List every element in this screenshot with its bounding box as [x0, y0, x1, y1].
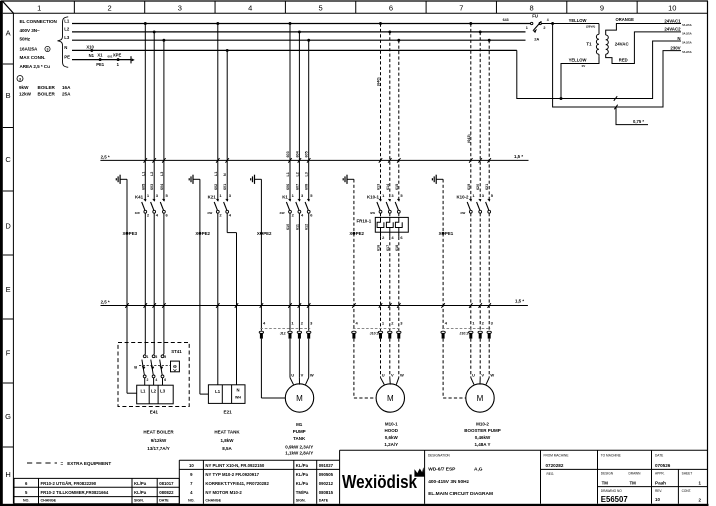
svg-text:4: 4 — [155, 378, 157, 382]
svg-text:W: W — [400, 373, 404, 378]
svg-text:WD-6/7 ESP: WD-6/7 ESP — [428, 467, 456, 473]
svg-text:10: 10 — [655, 497, 660, 502]
svg-text:PE2: PE2 — [356, 231, 365, 236]
svg-text:0,9kW 2,3A/Y: 0,9kW 2,3A/Y — [285, 444, 313, 449]
svg-text:E41: E41 — [150, 409, 159, 414]
svg-text:2A: 2A — [534, 36, 539, 41]
svg-text:5: 5 — [164, 355, 166, 359]
svg-text:X1: X1 — [97, 53, 103, 58]
svg-text:2: 2 — [147, 378, 149, 382]
svg-text:6: 6 — [389, 3, 393, 12]
svg-text:Θ: Θ — [173, 364, 177, 369]
svg-text:KL/Pa: KL/Pa — [134, 490, 147, 495]
svg-text:2,5 *: 2,5 * — [101, 155, 110, 160]
svg-text:PE1: PE1 — [445, 231, 454, 236]
svg-text:TO MACHINE: TO MACHINE — [601, 454, 621, 458]
svg-text:K1: K1 — [282, 195, 288, 200]
svg-text:(28VA): (28VA) — [586, 24, 595, 28]
svg-text:3: 3 — [155, 355, 157, 359]
svg-text:EXTRA EQUIPMENT: EXTRA EQUIPMENT — [67, 461, 111, 466]
svg-text:(640): (640) — [377, 77, 381, 86]
svg-text:N: N — [64, 45, 67, 50]
svg-text:L2: L2 — [150, 172, 154, 176]
svg-text:DRAWN: DRAWN — [629, 472, 642, 476]
svg-text:610: 610 — [286, 224, 290, 230]
svg-text:FR10-1: FR10-1 — [357, 219, 372, 224]
svg-text:607: 607 — [295, 184, 299, 190]
svg-text:CONT.: CONT. — [682, 489, 692, 493]
svg-text:070526: 070526 — [655, 463, 671, 468]
svg-text:J10:1: J10:1 — [370, 331, 379, 335]
svg-text:X: X — [122, 231, 125, 236]
svg-text:EL.MAIN CIRCUIT DIAGRAM: EL.MAIN CIRCUIT DIAGRAM — [428, 491, 493, 497]
svg-text:Paah: Paah — [655, 480, 666, 485]
svg-text:L2: L2 — [295, 172, 299, 176]
svg-text:SHEET: SHEET — [682, 472, 693, 476]
svg-text:X: X — [349, 231, 352, 236]
svg-text:FROM MACHINE: FROM MACHINE — [544, 454, 569, 458]
svg-text:2: 2 — [543, 26, 545, 30]
svg-text:DATE: DATE — [655, 454, 663, 458]
svg-text:400V 3N~: 400V 3N~ — [20, 28, 41, 33]
svg-text:Wexiödisk: Wexiödisk — [342, 472, 418, 492]
svg-text:0,6kW: 0,6kW — [385, 435, 399, 440]
svg-text:613: 613 — [377, 184, 381, 190]
svg-text:1,5 *: 1,5 * — [515, 299, 524, 304]
svg-text:DESIGN: DESIGN — [601, 472, 614, 476]
svg-text:081017: 081017 — [159, 481, 174, 486]
svg-text:400-415V 3N 50Hz: 400-415V 3N 50Hz — [428, 479, 469, 485]
svg-text:V: V — [481, 373, 484, 378]
svg-text:612: 612 — [305, 224, 309, 230]
svg-text:C: C — [5, 155, 11, 164]
svg-text:12kW: 12kW — [19, 92, 32, 97]
svg-text:WH: WH — [235, 396, 241, 400]
svg-text:KL/Pa: KL/Pa — [296, 481, 309, 486]
svg-text:W: W — [310, 373, 314, 378]
svg-text:PE: PE — [64, 54, 70, 59]
svg-text:1,5 *: 1,5 * — [514, 154, 523, 159]
svg-text:K41: K41 — [135, 195, 144, 200]
svg-text:0,75 *: 0,75 * — [633, 119, 644, 124]
svg-text:16A: 16A — [62, 85, 71, 90]
svg-text:AREA 2,5 * Cu: AREA 2,5 * Cu — [20, 64, 51, 69]
svg-text:KL/Pa: KL/Pa — [296, 463, 309, 468]
svg-text:1: 1 — [147, 355, 149, 359]
svg-text:230V: 230V — [670, 45, 680, 50]
svg-text:FR10-2 TILLKOMMER,FR0821664: FR10-2 TILLKOMMER,FR0821664 — [41, 490, 109, 495]
svg-text:L1: L1 — [214, 172, 218, 176]
svg-text:NY TYP M10-2 FR.0920917: NY TYP M10-2 FR.0920917 — [205, 472, 259, 477]
svg-text:APPR.: APPR. — [655, 472, 665, 476]
svg-text:614: 614 — [386, 183, 390, 190]
svg-text:ST41: ST41 — [171, 349, 182, 354]
svg-text:3/W: 3/W — [135, 211, 140, 215]
svg-text:X: X — [439, 231, 442, 236]
svg-text:0720282: 0720282 — [546, 463, 564, 468]
svg-text:3/W: 3/W — [207, 211, 212, 215]
svg-text:KL/Pa: KL/Pa — [296, 472, 309, 477]
svg-text:DATE: DATE — [159, 499, 169, 503]
svg-text:1: 1 — [526, 26, 528, 30]
svg-text:611: 611 — [295, 224, 299, 230]
svg-text:PUMP: PUMP — [293, 429, 306, 434]
svg-text:M: M — [296, 394, 303, 403]
svg-text:BOOSTER PUMP: BOOSTER PUMP — [464, 428, 501, 433]
svg-text:TANK: TANK — [293, 436, 306, 441]
svg-text:603: 603 — [286, 151, 290, 157]
svg-text:DRAWING NO: DRAWING NO — [601, 489, 622, 493]
svg-text:N: N — [677, 36, 680, 41]
svg-text:090505: 090505 — [319, 472, 334, 477]
svg-text:PE1: PE1 — [96, 62, 105, 67]
svg-text:24VAC1: 24VAC1 — [664, 18, 681, 23]
svg-text:3/W: 3/W — [460, 211, 465, 215]
svg-text:HOOD: HOOD — [385, 428, 399, 433]
svg-text:1,2A/Y: 1,2A/Y — [384, 442, 398, 447]
svg-text:CHANGE: CHANGE — [41, 499, 57, 503]
svg-text:602: 602 — [214, 184, 218, 190]
svg-text:L3: L3 — [160, 389, 166, 394]
svg-text:K10-2: K10-2 — [457, 195, 470, 200]
svg-text:YELLOW: YELLOW — [569, 58, 587, 63]
svg-text:G: G — [5, 412, 11, 421]
svg-text:K21: K21 — [208, 195, 217, 200]
svg-text:MAX CONN.: MAX CONN. — [20, 55, 46, 60]
svg-text:1,48A Y: 1,48A Y — [474, 442, 490, 447]
svg-text:E56507: E56507 — [601, 495, 628, 504]
svg-text:4: 4 — [248, 3, 252, 12]
svg-text:1,8kW: 1,8kW — [220, 438, 234, 443]
svg-text:D: D — [5, 222, 11, 231]
svg-text:091027: 091027 — [319, 463, 334, 468]
svg-text:16A/25A: 16A/25A — [20, 47, 39, 52]
svg-text:DATE: DATE — [319, 499, 329, 503]
svg-text:X10: X10 — [86, 44, 94, 49]
svg-text:3/W: 3/W — [280, 211, 285, 215]
svg-text:M: M — [477, 394, 484, 403]
svg-text:X: X — [195, 231, 198, 236]
svg-text:50Hz: 50Hz — [20, 37, 31, 42]
svg-text:621: 621 — [485, 184, 489, 190]
svg-text:3/W: 3/W — [370, 211, 375, 215]
svg-text:606: 606 — [286, 184, 290, 190]
svg-text:10: 10 — [668, 3, 676, 12]
svg-text:24VAC: 24VAC — [615, 42, 630, 47]
svg-text:615: 615 — [395, 184, 399, 190]
svg-text:F: F — [6, 349, 11, 358]
svg-text:5A 2/1A: 5A 2/1A — [682, 23, 692, 27]
svg-text:PE2: PE2 — [263, 231, 272, 236]
svg-text:A: A — [6, 29, 11, 38]
svg-text:L2: L2 — [151, 389, 157, 394]
svg-text:601: 601 — [223, 184, 227, 190]
svg-text:E21: E21 — [224, 409, 233, 414]
svg-text:X: X — [257, 231, 260, 236]
svg-text:643: 643 — [503, 18, 509, 22]
svg-text:TM/Pa: TM/Pa — [296, 490, 309, 495]
svg-text:K10-1: K10-1 — [367, 195, 380, 200]
svg-text:608: 608 — [305, 184, 309, 190]
svg-text:3: 3 — [47, 48, 49, 52]
svg-text:NO.: NO. — [23, 499, 29, 503]
svg-text:620: 620 — [476, 184, 480, 190]
svg-text:T1: T1 — [586, 42, 592, 47]
svg-text:J10:2: J10:2 — [459, 331, 468, 335]
svg-text:BOILER: BOILER — [38, 92, 56, 97]
svg-text:604: 604 — [160, 183, 164, 190]
svg-text:9kW: 9kW — [19, 85, 29, 90]
svg-text:J12: J12 — [280, 331, 286, 335]
svg-text:N: N — [223, 173, 227, 176]
svg-text:L3: L3 — [64, 35, 70, 40]
svg-text:0,46kW: 0,46kW — [475, 435, 491, 440]
svg-text:FU: FU — [532, 14, 538, 19]
svg-text:604: 604 — [295, 150, 299, 157]
svg-text:DESIGNATION: DESIGNATION — [428, 454, 450, 458]
svg-text:EL CONNECTION: EL CONNECTION — [20, 19, 58, 24]
svg-text:N: N — [236, 388, 239, 393]
svg-text:080822: 080822 — [159, 490, 174, 495]
svg-text:E: E — [6, 285, 11, 294]
svg-text:TM: TM — [602, 480, 609, 485]
svg-text:L3: L3 — [160, 172, 164, 176]
svg-text:0V: 0V — [582, 64, 586, 68]
svg-text:L1: L1 — [141, 172, 145, 176]
svg-text:619: 619 — [467, 184, 471, 190]
svg-text:4: 4 — [547, 18, 549, 22]
svg-text:M10-2: M10-2 — [476, 421, 489, 426]
svg-text:(643): (643) — [467, 134, 471, 143]
svg-text:8,5A: 8,5A — [222, 446, 232, 451]
svg-text:XPE: XPE — [113, 53, 122, 58]
svg-text:H: H — [5, 470, 10, 479]
svg-text:KL/Pa: KL/Pa — [134, 481, 147, 486]
svg-text:U: U — [472, 373, 475, 378]
svg-text:V: V — [301, 373, 304, 378]
svg-text:13/17,7A/Y: 13/17,7A/Y — [147, 446, 170, 451]
svg-text:5A 2/1A: 5A 2/1A — [682, 32, 692, 36]
svg-text:N1: N1 — [89, 53, 95, 58]
svg-text:NO.: NO. — [188, 499, 194, 503]
svg-text:617: 617 — [386, 245, 390, 251]
svg-text:M: M — [387, 394, 394, 403]
svg-text:605: 605 — [141, 184, 145, 190]
svg-text:1,1kW 2,8A/Y: 1,1kW 2,8A/Y — [285, 451, 313, 456]
svg-text:9: 9 — [600, 3, 604, 12]
svg-text:5A 2/1A: 5A 2/1A — [682, 50, 692, 54]
svg-text:M10-1: M10-1 — [385, 421, 398, 426]
svg-text:REG.: REG. — [547, 472, 555, 476]
svg-text:7: 7 — [459, 3, 463, 12]
svg-text:080815: 080815 — [319, 490, 334, 495]
svg-text:NY PLINT X10-N, FR.0922150: NY PLINT X10-N, FR.0922150 — [205, 463, 265, 468]
svg-text:5: 5 — [318, 3, 322, 12]
svg-text:U: U — [382, 373, 385, 378]
svg-text:YELLOW: YELLOW — [569, 18, 587, 23]
svg-text:2,5 *: 2,5 * — [101, 300, 110, 305]
svg-text:B: B — [6, 91, 11, 100]
svg-text:616: 616 — [377, 245, 381, 251]
svg-text:603: 603 — [150, 184, 154, 190]
svg-text:L1: L1 — [286, 172, 290, 176]
svg-text:6: 6 — [164, 378, 166, 382]
svg-text:10: 10 — [189, 463, 194, 468]
svg-text:REV.: REV. — [655, 489, 662, 493]
svg-text:L1: L1 — [215, 389, 221, 394]
svg-text:L3: L3 — [305, 172, 309, 176]
svg-text:1: 1 — [37, 3, 41, 12]
svg-text:HEAT BOILER: HEAT BOILER — [143, 430, 174, 435]
svg-text:CHANGE: CHANGE — [205, 499, 221, 503]
svg-text:U: U — [291, 373, 294, 378]
svg-text:V: V — [391, 373, 394, 378]
svg-text:8: 8 — [530, 3, 534, 12]
svg-text:TM: TM — [630, 480, 637, 485]
svg-text:A,G: A,G — [474, 467, 483, 473]
svg-text:090212: 090212 — [319, 481, 334, 486]
svg-text:5A 2/1A: 5A 2/1A — [682, 41, 692, 45]
svg-text:605: 605 — [305, 151, 309, 157]
svg-text:SIGN.: SIGN. — [134, 499, 144, 503]
svg-text:M1: M1 — [296, 422, 303, 427]
svg-text:3: 3 — [178, 3, 182, 12]
svg-text:SIGN.: SIGN. — [296, 499, 306, 503]
svg-text:HEAT TANK: HEAT TANK — [214, 430, 240, 435]
svg-text:W: W — [490, 373, 494, 378]
svg-text:ORANGE: ORANGE — [616, 17, 635, 22]
svg-text:KORREKT.TYP.E41, FR0720282: KORREKT.TYP.E41, FR0720282 — [205, 481, 269, 486]
svg-text:L1: L1 — [140, 389, 146, 394]
svg-text:25A: 25A — [62, 92, 71, 97]
svg-text:PE2: PE2 — [202, 231, 211, 236]
svg-text:FR10-2 UTGÅR, FR0822290: FR10-2 UTGÅR, FR0822290 — [41, 481, 97, 486]
svg-text:RED: RED — [619, 58, 628, 63]
svg-text:618: 618 — [395, 245, 399, 251]
svg-text:PE3: PE3 — [129, 231, 138, 236]
svg-text:2: 2 — [107, 3, 111, 12]
svg-text:NY MOTOR M10-2: NY MOTOR M10-2 — [205, 490, 242, 495]
svg-text:9/12kW: 9/12kW — [151, 438, 167, 443]
svg-text:BOILER: BOILER — [38, 85, 56, 90]
svg-text:L1: L1 — [64, 18, 70, 23]
svg-text:24VAC2: 24VAC2 — [664, 27, 681, 32]
svg-text:L2: L2 — [64, 27, 70, 32]
svg-text:=: = — [61, 461, 64, 466]
svg-text:B: B — [134, 365, 137, 370]
